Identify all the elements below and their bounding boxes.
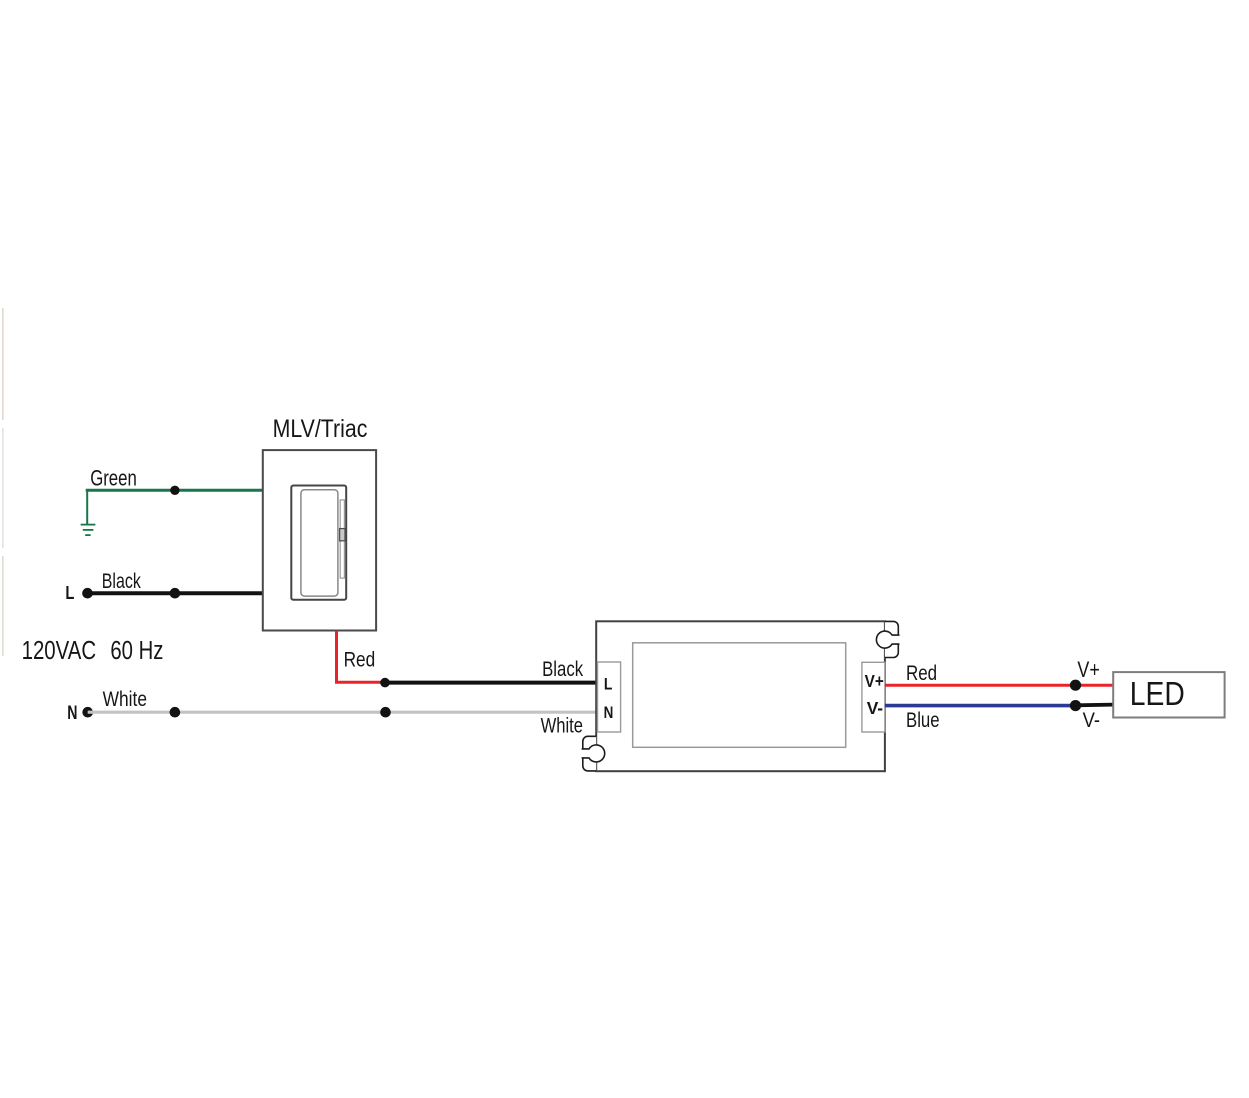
wire green vertical (to ground) — [86, 491, 88, 525]
svg-text:V-: V- — [1083, 708, 1100, 732]
svg-text:Black: Black — [542, 657, 583, 681]
dimmer box MLV/Triac — [263, 450, 376, 630]
driver mounting tab bottom-left — [583, 736, 596, 771]
junction dot on green wire — [170, 486, 179, 495]
wire black (dimmer to driver L) — [385, 681, 599, 685]
driver tab keyhole top-right — [876, 631, 899, 648]
svg-text:V-: V- — [867, 698, 884, 718]
wire red (driver V+ to LED) — [885, 684, 1114, 687]
dimmer slider track — [340, 500, 344, 578]
dimmer plate — [291, 486, 346, 600]
svg-text:L: L — [65, 583, 74, 603]
driver tab keyhole bottom-left — [582, 745, 605, 762]
svg-text:White: White — [103, 687, 147, 711]
LED load box — [1113, 672, 1224, 717]
svg-text:V+: V+ — [865, 671, 884, 691]
dimmer rocker — [301, 490, 338, 596]
svg-text:Red: Red — [344, 648, 376, 671]
wire white (N to driver) — [88, 711, 599, 714]
svg-text:LED: LED — [1130, 675, 1185, 712]
junction dot white 2 — [380, 707, 391, 718]
junction dot V- — [1070, 700, 1081, 711]
junction dot white 1 — [170, 707, 181, 718]
ground — [81, 525, 96, 536]
svg-text:Red: Red — [906, 662, 937, 685]
terminal dot N — [82, 707, 93, 718]
svg-text:120VAC: 120VAC — [22, 637, 97, 665]
wire green (ground to dimmer) — [86, 489, 263, 492]
junction dot red/black — [380, 678, 390, 688]
svg-text:V+: V+ — [1077, 657, 1099, 682]
svg-text:N: N — [604, 703, 614, 722]
left page-edge artifact — [2, 308, 4, 656]
junction dot on black wire — [170, 588, 181, 599]
wire black (V- to LED) — [1076, 703, 1114, 708]
wire blue (driver V-) — [885, 704, 1076, 708]
terminal dot L — [82, 588, 93, 599]
driver inner outline — [633, 643, 846, 748]
dimmer slider knob — [340, 529, 345, 541]
svg-text:Green: Green — [90, 465, 137, 490]
svg-text:N: N — [67, 703, 77, 724]
wire red (dimmer output) — [337, 631, 386, 683]
wire black (L to dimmer) — [88, 591, 263, 595]
svg-text:Black: Black — [102, 569, 141, 593]
svg-text:60 Hz: 60 Hz — [110, 637, 163, 665]
svg-text:White: White — [541, 714, 583, 738]
svg-text:MLV/Triac: MLV/Triac — [273, 415, 368, 443]
svg-text:Blue: Blue — [906, 708, 940, 732]
svg-text:L: L — [604, 675, 613, 694]
driver input terminal block — [598, 662, 621, 732]
driver mounting tab top-right — [885, 621, 898, 657]
junction dot V+ — [1070, 680, 1081, 691]
LED driver box — [596, 621, 885, 771]
driver output terminal block — [862, 662, 885, 732]
